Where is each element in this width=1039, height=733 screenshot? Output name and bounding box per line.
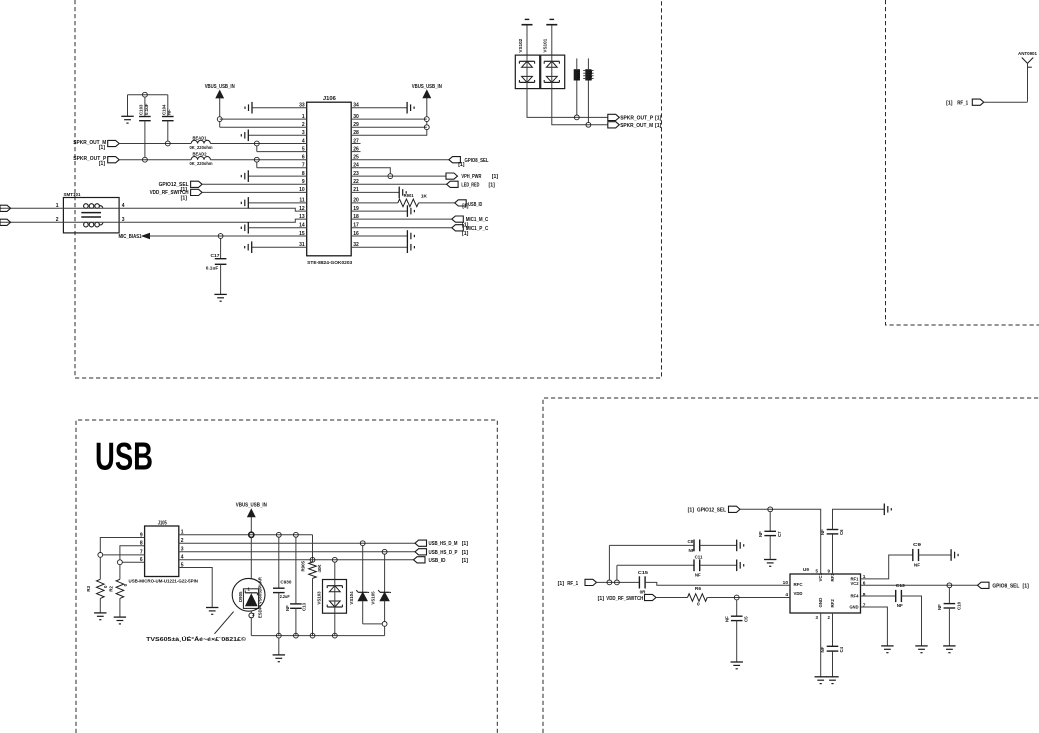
ground (C10) [943, 646, 955, 653]
svg-text:TVS605±à¸ÚÉ°Åé~é×£¨0821£©: TVS605±à¸ÚÉ°Åé~é×£¨0821£© [146, 635, 247, 643]
svg-text:VS104: VS104 [349, 591, 354, 605]
junction R6/C5 [734, 595, 739, 600]
ground C9 (sideways) [951, 549, 958, 561]
zener diode VS104 [349, 541, 382, 624]
svg-text:C10: C10 [956, 601, 961, 610]
transformer SMT101 body [63, 192, 119, 233]
svg-text:VS102: VS102 [518, 38, 523, 52]
port USB_HS_D_M [415, 540, 468, 547]
port USB_ID (J106) [455, 200, 483, 210]
port GPIO12_SEL (RF) [688, 506, 740, 513]
svg-text:9: 9 [828, 569, 831, 574]
junction RF_1/C11 [615, 580, 620, 585]
svg-text:FB21: FB21 [576, 69, 581, 80]
capacitor C11 (RF) [694, 554, 703, 577]
wire RF_1 chain [597, 581, 640, 583]
svg-text:SMT101: SMT101 [64, 192, 81, 198]
svg-text:ESDPTVS605DPLAR: ESDPTVS605DPLAR [258, 577, 263, 618]
junction pin1/VBUS [217, 117, 222, 122]
capacitor C10 [937, 588, 961, 610]
junction RF_1/C8 [607, 580, 612, 585]
wire C9 to ground [919, 554, 952, 556]
svg-text:[1]: [1] [655, 116, 662, 122]
svg-text:7: 7 [863, 603, 866, 609]
junction pin30/VBUS [424, 117, 429, 122]
svg-text:NF: NF [689, 548, 695, 553]
port MIC1_P_C [452, 225, 489, 237]
svg-text:NF: NF [695, 572, 701, 577]
wire pin8 to ground [248, 175, 306, 177]
svg-text:J106: J106 [323, 96, 336, 102]
svg-text:NF: NF [914, 562, 920, 567]
wire C930 to bus [278, 593, 280, 636]
svg-text:BEAD1: BEAD1 [193, 135, 208, 140]
stub pin26 [351, 151, 360, 153]
connector J106 body [307, 96, 353, 265]
svg-text:D905: D905 [238, 591, 243, 602]
svg-text:MIC1_M_C: MIC1_M_C [466, 217, 489, 223]
wire pin19 to ground [351, 210, 407, 212]
svg-text:RF4: RF4 [851, 593, 859, 599]
wire GND pin7 to ground [861, 607, 888, 646]
capacitor C13 (RF) [896, 583, 905, 608]
svg-text:MIC_BIAS1: MIC_BIAS1 [119, 234, 142, 240]
ground pin31 (sideways) [245, 241, 252, 253]
TVS array VS102 [515, 38, 539, 88]
wire pin17 MIC1_P_C [351, 227, 452, 229]
ground (C17) [214, 294, 226, 301]
wire BEAD2 to pin6 [210, 159, 306, 161]
note TVS605 text [146, 635, 247, 643]
svg-text:USB_HS_D_P: USB_HS_D_P [429, 550, 458, 556]
capacitor C6 [820, 509, 885, 574]
capacitor C17 [206, 238, 227, 270]
svg-text:USB_ID: USB_ID [429, 558, 446, 564]
svg-text:GND: GND [850, 605, 859, 611]
svg-text:VBUS_USB_IN: VBUS_USB_IN [205, 84, 235, 90]
callout line TVS note [215, 612, 234, 634]
wire pin3 GND to ground [820, 613, 822, 677]
wire pin24 [351, 168, 390, 174]
svg-text:[1]: [1] [462, 550, 469, 556]
svg-text:NF: NF [285, 605, 290, 611]
wire pin31 to ground [252, 246, 307, 248]
ground (U9 pin3) [815, 677, 827, 684]
svg-text:8: 8 [863, 592, 866, 598]
svg-text:[1]: [1] [489, 182, 496, 188]
U9 pin names [794, 572, 859, 610]
ground pin21 (sideways) [399, 187, 406, 199]
wire C103 to P row [144, 121, 146, 158]
svg-text:RF2: RF2 [830, 599, 835, 608]
svg-text:C13: C13 [896, 583, 905, 589]
wire VS102 to SPKR_OUT_P row [527, 89, 608, 118]
ferrite bead BEAD2 [190, 152, 213, 167]
port MIC1_M_C [452, 216, 489, 228]
wire C8 to ground [700, 544, 737, 546]
svg-text:NF: NF [758, 531, 763, 537]
junction C930/bus [276, 633, 281, 638]
svg-text:3: 3 [816, 615, 819, 620]
transformer pin4 wire to pin12 [119, 203, 307, 211]
svg-text:[1]: [1] [99, 145, 105, 151]
svg-text:2.2uF: 2.2uF [280, 594, 290, 599]
ground pin14 (sideways) [241, 222, 248, 234]
row USB_HS_D_P (pin3) [179, 551, 415, 553]
svg-text:RF_1: RF_1 [957, 100, 968, 106]
svg-text:USB_HS_D_M: USB_HS_D_M [429, 541, 458, 547]
ground (U9 pin2/C4) [826, 677, 838, 684]
svg-text:C930: C930 [280, 579, 291, 584]
wire C15 to pin10 RFC [645, 582, 790, 585]
junction R905/USB_ID [310, 557, 315, 562]
svg-text:SPKR_OUT_M: SPKR_OUT_M [620, 123, 653, 129]
row USB_HS_D_M (pin2) [179, 542, 415, 544]
svg-text:J105: J105 [158, 520, 167, 526]
svg-text:VDD: VDD [794, 591, 803, 597]
svg-text:5: 5 [816, 569, 819, 574]
svg-text:VBUS_USB_IN: VBUS_USB_IN [412, 84, 442, 90]
svg-text:[1]: [1] [946, 100, 953, 106]
ground (R2) [114, 617, 126, 624]
svg-text:VPH_PWR: VPH_PWR [461, 174, 481, 180]
wire C11 to ground [700, 564, 737, 566]
svg-text:VC2: VC2 [851, 581, 859, 587]
capacitor C5 [724, 600, 748, 622]
svg-text:VDD_RF_SWITCH: VDD_RF_SWITCH [606, 596, 643, 602]
junction pin8/pin6 [118, 560, 123, 565]
svg-text:LED_RED: LED_RED [461, 182, 479, 188]
port USB_HS_D_P [415, 549, 468, 556]
svg-text:ANT0901: ANT0901 [1018, 51, 1037, 57]
svg-text:GND: GND [818, 598, 823, 608]
svg-text:MIC1_P_C: MIC1_P_C [466, 226, 489, 232]
wire C7 to ground [769, 536, 771, 560]
svg-text:NF: NF [820, 529, 825, 535]
ground (C7) [764, 560, 776, 567]
ferrite bead FB11 [583, 58, 593, 122]
ground pin11 (sideways) [241, 197, 248, 209]
wire pin9 down-left [100, 538, 144, 553]
wire GPIO12_SEL to pin9 [202, 183, 307, 185]
wire pin34 to ground [351, 107, 407, 109]
sheet border box B (antenna section) [886, 0, 1039, 325]
svg-text:0K_220ohm: 0K_220ohm [190, 145, 213, 150]
wire C13 to ground [901, 596, 921, 646]
svg-text:[1]: [1] [458, 162, 465, 168]
port SPKR_OUT_M [73, 140, 119, 151]
wire R6 to pin4 VDD [707, 597, 790, 599]
svg-text:GPIO12_SEL: GPIO12_SEL [697, 507, 727, 513]
ground pin19 (sideways) [407, 205, 414, 217]
row USB_ID (pin4) [179, 559, 414, 561]
svg-text:C11: C11 [695, 554, 703, 559]
power symbol above VS101 [546, 19, 557, 55]
sheet border box A (audio/connector section) [75, 0, 662, 378]
connector J105 body [129, 520, 199, 583]
svg-text:0K_220ohm: 0K_220ohm [190, 161, 213, 166]
svg-text:C5: C5 [744, 616, 749, 622]
ground pin16 (sideways) [407, 230, 414, 242]
wire pin11 to ground [248, 202, 306, 204]
svg-text:R905: R905 [301, 560, 306, 571]
ground (R3) [94, 613, 106, 620]
svg-text:NF: NF [820, 646, 825, 652]
svg-text:[1]: [1] [99, 161, 105, 167]
svg-text:C4: C4 [839, 646, 844, 652]
port VDD_RF_SWITCH [150, 189, 203, 201]
RF switch U9 body [790, 567, 861, 613]
svg-text:GPIO8_SEL: GPIO8_SEL [992, 584, 1020, 590]
transformer pin2 wire [0, 217, 119, 223]
capacitor C4 [820, 613, 844, 677]
svg-text:[1]: [1] [462, 541, 469, 547]
wire rail to ground [127, 95, 129, 117]
ground (U9 pin7) [881, 646, 893, 653]
svg-text:VS101: VS101 [542, 38, 547, 52]
wire SPKR_OUT_P [119, 159, 191, 161]
wire pin29 junction [351, 125, 429, 130]
wire VBUS to TVS [250, 537, 252, 578]
junction P/cap C103 [143, 157, 148, 162]
junction VS104/VS105 wire [382, 622, 387, 627]
transformer windings [81, 204, 103, 227]
svg-text:C15: C15 [638, 570, 648, 576]
sheet border box C (USB section) [76, 420, 497, 733]
port GPIO8_SEL (RF) [978, 582, 1030, 589]
svg-text:RF_1: RF_1 [567, 581, 578, 587]
port VDD_RF_SWITCH (RF) [598, 594, 656, 602]
power flag VBUS_USB_IN (USB) [236, 503, 267, 533]
J106 pin numbers [299, 103, 359, 249]
svg-text:R901: R901 [404, 193, 414, 199]
stub pin27 [351, 143, 360, 145]
capacitor C8 [688, 539, 700, 553]
ground (USB bus) [273, 655, 285, 662]
wire pin3 to ground [248, 134, 306, 136]
wire pin21 to ground [351, 191, 399, 193]
capacitor C930 [273, 537, 292, 599]
wire pin14 to ground [248, 227, 306, 229]
wire junction to pin7 [257, 162, 307, 168]
wire VS101 to SPKR_OUT_M row [552, 89, 608, 125]
wire pin30 [351, 118, 427, 120]
wire C10 to ground [948, 608, 950, 646]
ground pin33 (sideways) [245, 102, 252, 114]
svg-text:USB: USB [95, 436, 153, 479]
wire C8 riser [609, 545, 694, 580]
svg-text:USB_ID: USB_ID [468, 202, 482, 208]
ground C11 (sideways) [737, 560, 744, 572]
wire VC2 to GPIO8_SEL [861, 584, 978, 586]
wire GPIO12_SEL to pin5 [740, 509, 821, 574]
svg-text:[1]: [1] [598, 596, 605, 602]
TVS array VS101 [541, 38, 565, 88]
junction GPIO12/C7 [768, 507, 773, 512]
wire VBUS to pin2 [220, 122, 307, 128]
wire bus to ground [278, 638, 280, 655]
antenna ANT0901 [1018, 51, 1037, 102]
transformer pin3 wire to pin13 [119, 217, 307, 223]
transformer pin1 wire [0, 203, 119, 209]
svg-text:[1]: [1] [181, 195, 188, 201]
svg-text:[1]: [1] [492, 174, 499, 180]
wire pin7 row [103, 554, 145, 556]
port SPKR_OUT_M (right) [608, 122, 662, 129]
junction rail/C103 [143, 92, 148, 97]
svg-text:VS105: VS105 [371, 591, 376, 605]
ferrite bead BEAD1 [190, 135, 213, 150]
power flag VBUS_USB_IN (left) [205, 84, 235, 117]
wire BEAD1 to pin4 [210, 143, 306, 145]
wire C11 riser [617, 565, 694, 580]
junction R905/bus [310, 633, 315, 638]
TVS array VS103 [316, 557, 346, 635]
port (left edge upper) [0, 205, 11, 211]
ground (C5) [731, 662, 743, 669]
J105 pin numbers [140, 530, 184, 569]
junction VBUS/TVS (bold) [249, 532, 254, 537]
junction C930/VBUS [276, 532, 281, 537]
ground C8 (sideways) [737, 540, 744, 552]
port LED_RED [447, 181, 496, 188]
wire to R6 [656, 597, 688, 599]
svg-text:FB11: FB11 [588, 70, 593, 81]
svg-text:0R: 0R [640, 590, 647, 595]
capacitor C104 [162, 95, 174, 121]
svg-text:C7: C7 [777, 531, 782, 537]
wire pin6 row [122, 561, 144, 563]
capacitor C13 (USB) [285, 537, 307, 611]
svg-text:1K: 1K [421, 193, 428, 199]
svg-text:R3: R3 [86, 585, 91, 591]
port GPIO8_SEL (J106) [449, 157, 489, 169]
junction M/cap C104 [165, 141, 170, 146]
svg-text:40K: 40K [317, 564, 322, 573]
svg-text:C6: C6 [839, 529, 844, 535]
wire C5 to ground [736, 621, 738, 662]
resistor R3 [86, 557, 108, 613]
wire pin22 LED_RED [351, 183, 446, 185]
svg-text:SPKR_OUT_P: SPKR_OUT_P [620, 116, 653, 122]
TVS diode D905 [232, 577, 265, 618]
junction FB11/M row [586, 122, 591, 127]
wire pin25 GPIO8_SEL [351, 159, 449, 161]
row VBUS (pin1) [179, 534, 313, 536]
junction TVS pin2 [249, 613, 254, 618]
junction VS103/bus [332, 633, 337, 638]
wire RF1 to C9 [861, 555, 913, 579]
GND bus (USB) [251, 635, 384, 637]
svg-text:VS103: VS103 [316, 591, 321, 605]
svg-text:NF: NF [167, 109, 172, 115]
svg-text:NF: NF [937, 604, 942, 610]
wire pin1 VBUS [220, 118, 307, 120]
resistor R901 [351, 193, 455, 207]
resistor R6 [688, 586, 708, 607]
svg-text:0.1uF: 0.1uF [206, 265, 219, 270]
wire C104 to M row [167, 121, 169, 141]
junction MIC_BIAS1/C17 [218, 234, 223, 239]
wire C13 to bus [295, 608, 297, 635]
wire pin23 VPH_PWR [351, 175, 446, 177]
resistor R905 [301, 535, 322, 636]
wire pin8 down-left [120, 546, 145, 560]
svg-text:C8: C8 [688, 539, 694, 544]
wire pin33 to ground [252, 107, 307, 109]
ground (C13 RF) [915, 646, 927, 653]
wire junction to pin5 [257, 146, 307, 152]
ground (top-left rail) [121, 116, 133, 123]
wire C17 to ground [220, 264, 222, 294]
svg-text:STE-8824-GOK0203: STE-8824-GOK0203 [307, 260, 352, 265]
svg-text:[1]: [1] [655, 123, 662, 129]
ground pin3 (sideways) [241, 130, 248, 142]
section title USB [95, 436, 153, 479]
wire pin18 MIC1_M_C [351, 218, 452, 220]
svg-text:NF: NF [724, 616, 729, 622]
power symbol above VS102 [522, 19, 533, 55]
svg-text:VBUS_USB_IN: VBUS_USB_IN [236, 503, 267, 509]
ground (J105 pin5) [206, 608, 218, 615]
svg-text:GPIO8_SEL: GPIO8_SEL [465, 158, 490, 164]
svg-text:BEAD2: BEAD2 [193, 152, 208, 157]
ground pin32 (sideways) [407, 241, 414, 253]
svg-text:C17: C17 [211, 253, 220, 258]
ground pin8 (sideways) [241, 170, 248, 182]
wire MIC_BIAS1 [150, 235, 307, 237]
U9 pin numbers [783, 569, 866, 621]
wire TVS to GND bus [250, 618, 252, 636]
ferrite bead FB21 [574, 58, 582, 115]
wire VDD_RF_SWITCH to pin10 [202, 191, 307, 193]
svg-text:0.1uF: 0.1uF [144, 103, 149, 115]
sheet border box D (RF switch section) [543, 398, 1039, 733]
svg-text:[1]: [1] [462, 231, 469, 237]
ground pin34 (sideways) [407, 102, 414, 114]
zener diode VS105 [371, 549, 391, 635]
ground C6 (sideways) [884, 504, 891, 516]
capacitor C9 [913, 542, 922, 567]
svg-text:C13: C13 [301, 602, 306, 611]
svg-text:R6: R6 [695, 586, 701, 592]
capacitor C15 [638, 570, 648, 594]
wire pin16 to ground [351, 235, 407, 237]
port VPH_PWR [446, 173, 498, 180]
port (left edge lower) [0, 219, 11, 225]
svg-text:C9: C9 [913, 542, 921, 548]
wire RF4 to C13 [861, 595, 896, 597]
net MIC_BIAS1 arrow [119, 233, 150, 240]
power flag VBUS_USB_IN (right) [412, 84, 442, 117]
port GPIO12_SEL [159, 181, 203, 193]
wire SPKR_OUT_M [119, 143, 191, 145]
svg-text:R2: R2 [108, 585, 113, 591]
port SPKR_OUT_P (right) [608, 114, 662, 121]
capacitor C7 [758, 512, 782, 537]
junction FB21/P row [574, 115, 579, 120]
svg-text:USB-MICRO-UM-U1221-G22-5PIN: USB-MICRO-UM-U1221-G22-5PIN [129, 579, 199, 584]
wire pin5 to ground [179, 568, 212, 608]
junction pin4/pin5 [254, 141, 259, 146]
svg-text:[1]: [1] [1023, 584, 1030, 590]
wire cap rail [128, 94, 168, 96]
svg-text:RFC: RFC [794, 582, 803, 588]
svg-text:0: 0 [697, 602, 700, 608]
wire pin32 to ground [351, 246, 407, 248]
svg-text:[1]: [1] [558, 581, 565, 587]
port RF_1 (antenna) [946, 99, 984, 106]
